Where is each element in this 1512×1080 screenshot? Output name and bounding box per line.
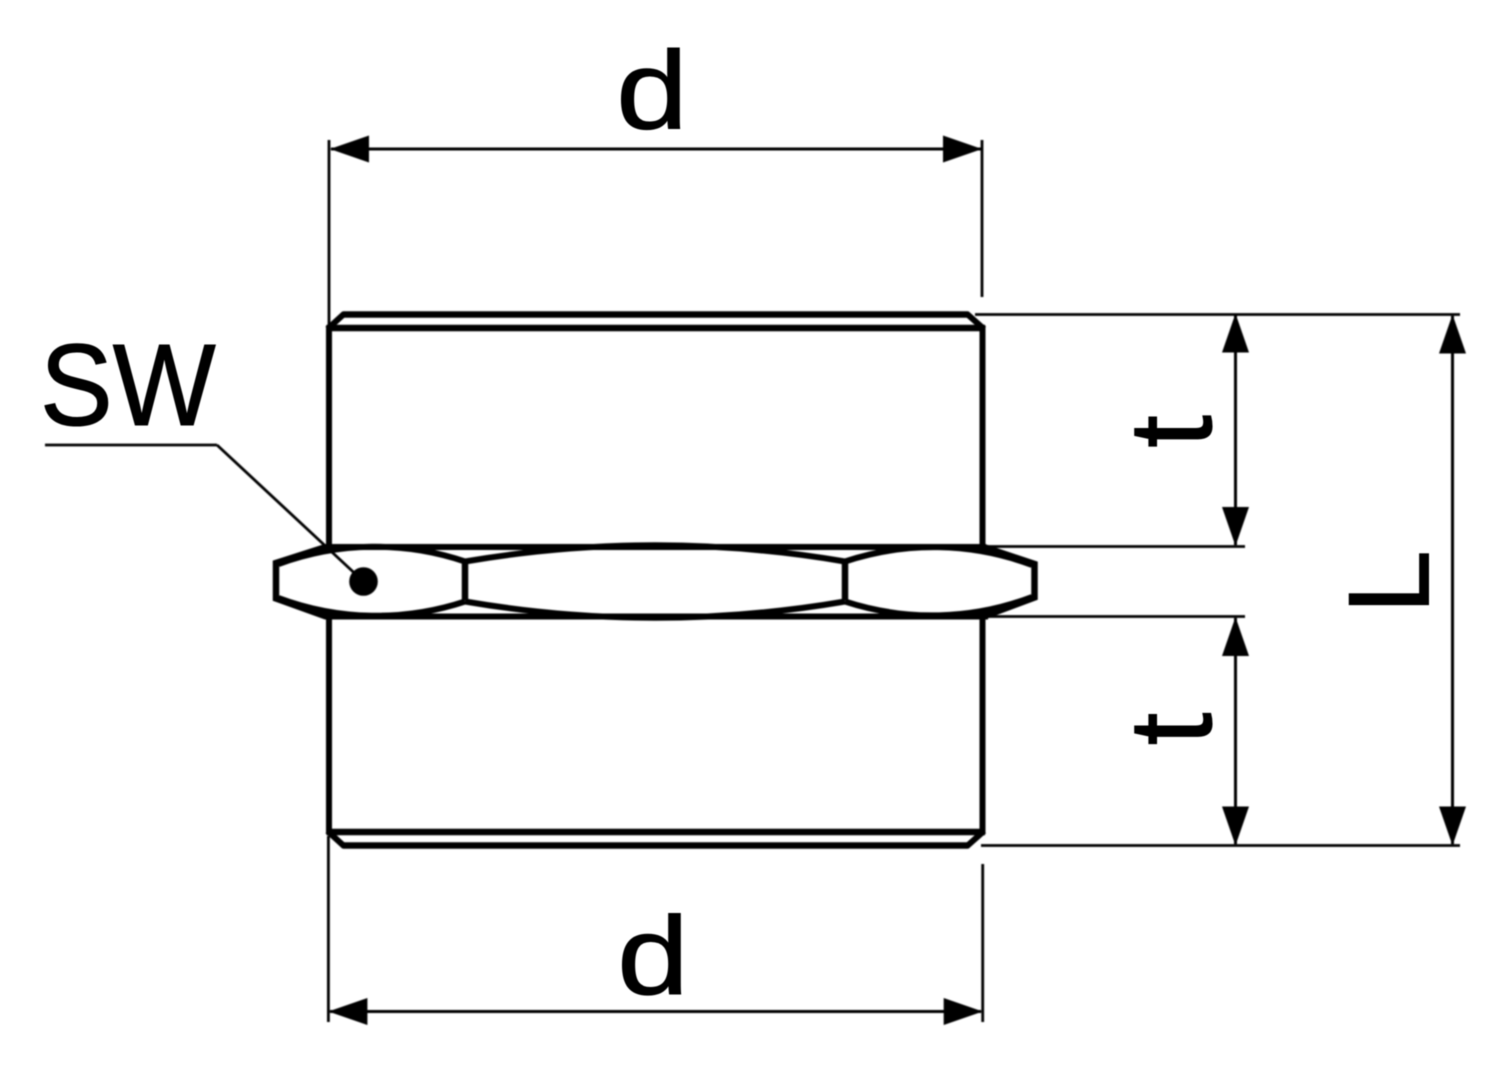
body left edge lower segment [326,614,332,834]
dimension t top: dimension line [1234,315,1237,545]
hex corner edge left (between left and centre face) [462,561,469,601]
hex band bottom line [325,614,988,620]
hex right face bottom chamfer arc [845,597,1032,615]
dimension d top: left extension line [328,140,331,327]
svg-text:d: d [616,29,688,153]
dimension d top: right arrowhead [943,136,982,163]
svg-text:d: d [617,894,689,1018]
body top face line [343,311,968,318]
dimension t bottom: lower arrowhead [1222,807,1249,846]
body right edge lower segment [980,614,986,834]
dimension t bottom: dimension line [1234,618,1237,844]
hex left face top chamfer arc [279,547,466,564]
body bottom-right chamfer diagonal [967,831,985,847]
svg-text:t: t [1105,713,1237,746]
dimension L: dimension line [1451,316,1454,844]
hex left corner end (flat and chamfer diagonals) [276,547,326,617]
hex left face bottom chamfer arc [279,598,466,616]
extension line body top right [975,313,1460,316]
SW leader dot [349,567,378,596]
dimension d top: right extension line [981,140,984,297]
hex centre face bottom chamfer arc [465,602,845,618]
dimension d bottom: right arrowhead [944,998,983,1025]
dimension L: upper arrowhead [1439,315,1466,354]
body top-left chamfer diagonal [328,314,345,330]
hex corner edge right (between centre and right face) [842,561,849,601]
body bottom face line [343,842,968,849]
dimension t top: lower arrowhead [1222,507,1249,546]
hex right corner end (flat and chamfer diagonals) [985,548,1035,617]
hex band top line [325,544,986,550]
body top-right chamfer diagonal [967,314,985,330]
extension line body bottom right [981,844,1460,847]
hex centre face top chamfer arc [465,545,845,561]
dimension t top: upper arrowhead [1222,314,1249,353]
body right edge upper segment [980,326,986,550]
dimension d top: left arrowhead [330,136,369,163]
SW leader underline [45,444,217,447]
dimension L: lower arrowhead [1439,807,1466,846]
body left edge upper segment [326,326,332,550]
svg-text:L: L [1326,550,1454,614]
dimension d bottom: left arrowhead [328,998,367,1025]
extension line hex top right [988,545,1245,548]
svg-text:t: t [1105,415,1237,448]
dimension d bottom: left extension line [327,836,330,1022]
extension line hex bottom right [988,615,1245,618]
body bottom chamfer line [327,829,986,836]
SW leader diagonal [217,445,364,582]
dimension d bottom: dimension line [330,1010,981,1013]
body top chamfer line [327,325,986,332]
dimension d bottom: right extension line [981,864,984,1022]
hex right face top chamfer arc [845,547,1032,565]
dimension d top: dimension line [331,148,981,151]
svg-text:SW: SW [40,320,216,450]
dimension t bottom: upper arrowhead [1222,617,1249,656]
body bottom-left chamfer diagonal [328,831,345,847]
